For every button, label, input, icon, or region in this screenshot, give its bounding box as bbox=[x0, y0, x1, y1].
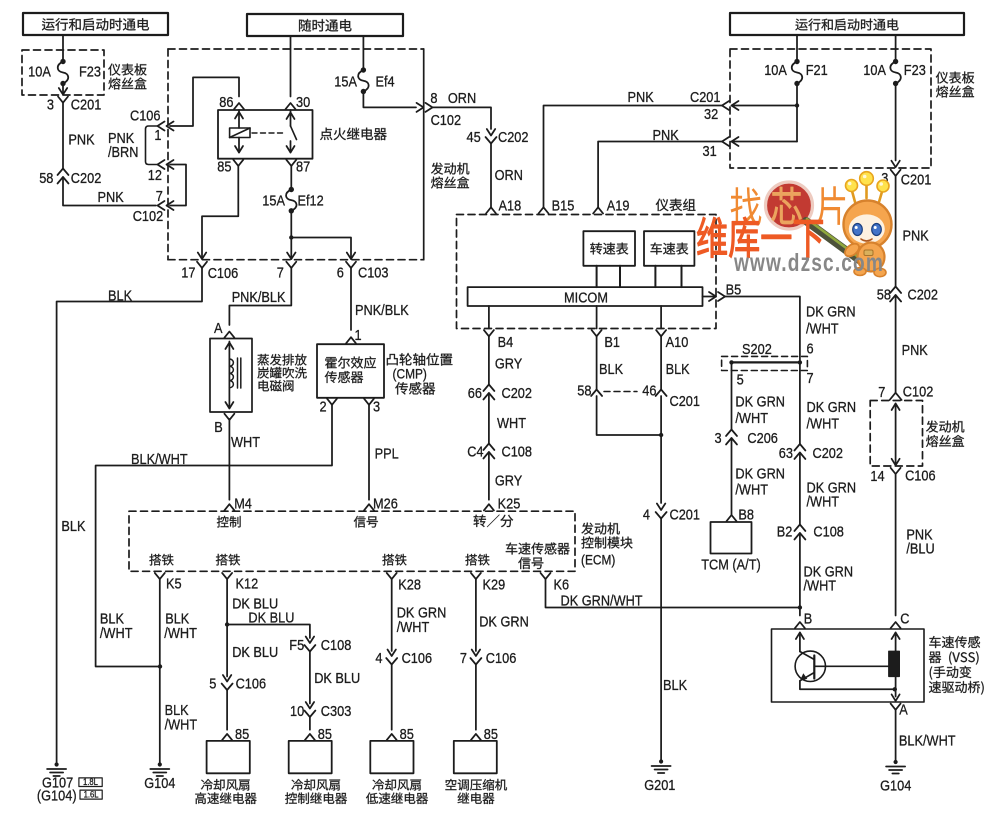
wire BLK cluster A10 to C201-46 bbox=[661, 336, 690, 390]
svg-text:PNK: PNK bbox=[653, 127, 679, 144]
svg-text:PNK: PNK bbox=[68, 132, 94, 149]
wire to high speed fan relay pin 85 bbox=[226, 690, 228, 730]
ECM connector K25 bbox=[484, 496, 520, 513]
connector C201 pin 58 (cluster) bbox=[577, 383, 602, 400]
connector C303 pin 10 bbox=[290, 702, 351, 720]
tachometer bbox=[583, 231, 635, 266]
svg-text:C106: C106 bbox=[486, 650, 517, 667]
engine control module ECM (dashed box) bbox=[129, 511, 633, 571]
wire to low speed fan relay pin 85 bbox=[391, 665, 393, 730]
svg-text:4: 4 bbox=[643, 507, 650, 524]
svg-text:GRY: GRY bbox=[495, 356, 522, 373]
svg-text:B: B bbox=[214, 419, 223, 436]
svg-text:C102: C102 bbox=[431, 112, 462, 129]
engine fuse box (dashed outline) bbox=[168, 49, 469, 260]
svg-text:BLK: BLK bbox=[108, 288, 132, 305]
svg-text:4: 4 bbox=[375, 650, 382, 667]
svg-text:M26: M26 bbox=[373, 496, 398, 513]
cluster connector B15 bbox=[539, 198, 575, 215]
svg-text:46: 46 bbox=[642, 383, 656, 400]
svg-text:F21: F21 bbox=[806, 62, 828, 79]
svg-text:/BLU: /BLU bbox=[906, 541, 934, 558]
svg-text:G104: G104 bbox=[144, 775, 175, 792]
svg-text:31: 31 bbox=[703, 143, 717, 160]
svg-text:/WHT: /WHT bbox=[807, 416, 840, 433]
svg-text:PNK: PNK bbox=[98, 189, 124, 206]
fuse F23 10A (left) bbox=[28, 59, 101, 86]
svg-text:(ECM): (ECM) bbox=[581, 552, 615, 568]
svg-text:G201: G201 bbox=[644, 777, 675, 794]
wire PNK/BLU C106-14 to VSS pin C bbox=[896, 474, 935, 616]
svg-text:10: 10 bbox=[290, 703, 304, 720]
svg-text:DK GRN: DK GRN bbox=[807, 399, 857, 416]
connector C201 pin 32 (exit left) bbox=[690, 89, 739, 123]
connector C202 pin 66 bbox=[468, 385, 532, 403]
svg-text:(CMP): (CMP) bbox=[393, 366, 427, 382]
svg-text:DK GRN: DK GRN bbox=[735, 394, 785, 411]
svg-text:C106: C106 bbox=[905, 468, 936, 485]
cooling fan low speed relay bbox=[366, 741, 428, 804]
svg-text:6: 6 bbox=[337, 265, 344, 282]
CMP sensor pin 3 bbox=[364, 399, 380, 416]
svg-text:7: 7 bbox=[277, 265, 284, 282]
svg-text:C303: C303 bbox=[321, 703, 352, 720]
wire PNK C202-58 to C102 pin 7 bbox=[63, 177, 156, 206]
svg-text:C201: C201 bbox=[690, 89, 721, 106]
svg-text:87: 87 bbox=[296, 159, 310, 176]
power feed box: hot at all times bbox=[247, 14, 403, 36]
VSS sensing element bbox=[814, 633, 899, 701]
wire GRY cluster B4 to C202-66 bbox=[489, 336, 522, 385]
wire C106-1 to ignition relay pin 86 bbox=[170, 77, 239, 126]
svg-text:GRY: GRY bbox=[495, 473, 522, 490]
svg-text:10A: 10A bbox=[28, 64, 51, 81]
wire ORN C202-45 to cluster A18 bbox=[491, 144, 523, 208]
svg-text:15A: 15A bbox=[262, 193, 285, 210]
relay pin 86 bbox=[219, 94, 244, 111]
svg-text:7: 7 bbox=[460, 650, 467, 667]
svg-text:63: 63 bbox=[779, 445, 793, 462]
svg-text:C102: C102 bbox=[133, 208, 164, 225]
svg-text:Ef4: Ef4 bbox=[376, 74, 395, 91]
svg-text:/WHT: /WHT bbox=[100, 625, 133, 642]
svg-text:(G104): (G104) bbox=[37, 788, 77, 805]
svg-text:C106: C106 bbox=[402, 650, 433, 667]
ground G104 (left) bbox=[144, 762, 175, 792]
VSS transistor bbox=[795, 633, 897, 692]
svg-text:C103: C103 bbox=[358, 265, 389, 282]
svg-text:C202: C202 bbox=[908, 287, 939, 304]
cluster connector B5 (exit right) bbox=[709, 282, 741, 302]
connector C201 pin 46 (cluster) bbox=[642, 383, 700, 411]
svg-text:DK GRN: DK GRN bbox=[735, 466, 785, 483]
connector C202 pin 63 bbox=[779, 444, 843, 462]
wire PNK/BLK pin7 to EVAP solenoid pin A bbox=[229, 268, 291, 325]
wire F21 to C201 pins 32 and 31 bbox=[732, 84, 800, 142]
wire F23 to connector C201 pin 3 (right) bbox=[891, 84, 899, 168]
connector C106 pin 5 bbox=[209, 675, 266, 693]
speedometer to MICOM wires bbox=[655, 266, 681, 287]
cluster connector A19 bbox=[593, 198, 629, 215]
svg-text:PNK: PNK bbox=[903, 228, 929, 245]
svg-text:66: 66 bbox=[468, 385, 482, 402]
cooling fan high speed relay bbox=[195, 741, 256, 804]
svg-text:85: 85 bbox=[217, 159, 231, 176]
svg-text:C201: C201 bbox=[670, 507, 701, 524]
svg-text:MICOM: MICOM bbox=[564, 290, 608, 307]
svg-text:BLK/WHT: BLK/WHT bbox=[131, 451, 188, 468]
ECM connector K28 bbox=[387, 573, 421, 594]
svg-text:C201: C201 bbox=[71, 97, 102, 114]
svg-text:ORN: ORN bbox=[448, 90, 476, 107]
CMP sensor pin 2 bbox=[320, 399, 338, 416]
svg-text:K25: K25 bbox=[498, 496, 521, 513]
connector C106 pin 1 bbox=[130, 108, 174, 145]
svg-text:C202: C202 bbox=[498, 129, 529, 146]
fuse F23 10A (right) bbox=[863, 59, 926, 86]
connector 85 of fan control relay bbox=[305, 726, 332, 743]
svg-text:K12: K12 bbox=[236, 576, 259, 593]
tachometer to MICOM wires bbox=[597, 266, 620, 287]
svg-text:DK BLU: DK BLU bbox=[248, 610, 294, 627]
connector C102 pin 7 (engine fuse box right) bbox=[878, 384, 933, 402]
svg-text:3: 3 bbox=[715, 430, 722, 447]
connector C106 pin 12 bbox=[148, 160, 174, 184]
TCM automatic transmission module bbox=[701, 522, 761, 574]
wire PNK C202-58 to C102-7 (right) bbox=[896, 295, 928, 393]
ECM connector K5 bbox=[155, 573, 182, 593]
svg-text:/WHT: /WHT bbox=[397, 619, 430, 636]
EVAP canister purge solenoid pin A bbox=[214, 320, 234, 338]
connector C108 pin B2 bbox=[777, 524, 844, 541]
splice S202 pin labels bbox=[737, 370, 814, 389]
svg-text:B4: B4 bbox=[498, 334, 514, 351]
svg-text:C106: C106 bbox=[130, 108, 161, 125]
wire DK BLU F5 to C303 bbox=[310, 652, 360, 704]
wire BLK C106-17 down-left to ground G107 bbox=[57, 268, 202, 765]
svg-text:12: 12 bbox=[148, 167, 162, 184]
speedometer bbox=[644, 231, 694, 266]
svg-text:7: 7 bbox=[807, 370, 814, 387]
engine fuse box (right, dashed) bbox=[870, 401, 964, 467]
ECM connector M4 bbox=[224, 496, 252, 513]
wire through engine fuse box with arrows bbox=[892, 404, 900, 466]
wire relay 87 to fuse Ef12 bbox=[290, 166, 292, 190]
instrument panel fuse box (left, dashed) bbox=[22, 50, 147, 95]
svg-text:5: 5 bbox=[209, 676, 216, 693]
wire DK GRN/WHT B5 to splice S202 bbox=[725, 297, 856, 363]
svg-text:BLK/WHT: BLK/WHT bbox=[899, 733, 956, 750]
ignition relay (dianhuo jidianqi) bbox=[218, 110, 387, 159]
svg-text:DK GRN: DK GRN bbox=[806, 304, 856, 321]
connector pin 7 (PNK/BLK to solenoid) bbox=[277, 262, 297, 282]
relay pin 30 bbox=[286, 94, 311, 111]
svg-text:C106: C106 bbox=[208, 265, 239, 282]
svg-text:1.6L: 1.6L bbox=[84, 790, 99, 800]
connector C106 pin 17 bbox=[181, 262, 238, 282]
EVAP solenoid pin B bbox=[214, 414, 234, 436]
connector 85 of high speed fan relay bbox=[222, 726, 249, 743]
wire PNK/BLK C103-6 to CMP sensor pin 1 bbox=[351, 268, 409, 330]
svg-text:58: 58 bbox=[577, 383, 591, 400]
svg-text:/BRN: /BRN bbox=[108, 144, 139, 161]
connector C106 pin 7 (compressor relay) bbox=[460, 650, 516, 668]
svg-text:F23: F23 bbox=[904, 62, 926, 79]
svg-text:C206: C206 bbox=[747, 430, 778, 447]
wire DK GRN ECM K29 bbox=[476, 579, 529, 651]
wire Ef12 to connectors 7 and 6 with junction bbox=[287, 211, 355, 259]
svg-text:C201: C201 bbox=[670, 393, 701, 410]
ECM connector K6 bbox=[541, 573, 570, 594]
VSS pin A bbox=[891, 702, 908, 719]
connector C103 pin 6 bbox=[337, 262, 389, 282]
wire inside engine fuse box C102-7 to C106-12 bbox=[170, 165, 186, 206]
svg-text:WHT: WHT bbox=[231, 434, 260, 451]
A/C compressor relay bbox=[445, 741, 506, 804]
svg-text:DK BLU: DK BLU bbox=[232, 644, 278, 661]
svg-text:DK GRN: DK GRN bbox=[479, 614, 529, 631]
svg-text:B15: B15 bbox=[552, 198, 575, 215]
connector C201 58-46 dashed tie bbox=[604, 391, 637, 393]
svg-text:M4: M4 bbox=[234, 496, 252, 513]
power feed box: hot in RUN and START (right) bbox=[730, 13, 964, 35]
connector C108 pin F5 bbox=[289, 637, 351, 655]
connector C206 pin 3 bbox=[715, 430, 778, 448]
wire right power box to fuse F23 bbox=[895, 35, 897, 62]
wire GRY C108-C4 to ECM K25 bbox=[489, 452, 522, 500]
cooling fan control relay bbox=[285, 741, 347, 804]
svg-text:PNK: PNK bbox=[902, 342, 928, 359]
wire DK GRN/WHT ECM K28 bbox=[392, 579, 447, 651]
TCM connector B8 bbox=[727, 507, 755, 524]
ground G104 (right) bbox=[880, 760, 911, 795]
svg-text:15A: 15A bbox=[334, 74, 357, 91]
wire PNK C201-3 to C202-58 bbox=[63, 103, 95, 169]
wire BLK C201-4 to ground G201 bbox=[661, 519, 687, 762]
svg-text:www.dzsc.com: www.dzsc.com bbox=[733, 249, 884, 277]
svg-text:K28: K28 bbox=[398, 577, 421, 594]
svg-text:TCM (A/T): TCM (A/T) bbox=[701, 557, 761, 574]
wire PNK fuse F21 to cluster A19 bbox=[598, 127, 722, 208]
connector C102 pin 7 (into engine fuse box) bbox=[133, 188, 174, 225]
cluster connector A18 bbox=[486, 198, 521, 215]
connector C106 pin 4 bbox=[375, 650, 432, 668]
wire DK GRN/WHT C202-63 to C108-B2 bbox=[800, 453, 856, 525]
svg-text:86: 86 bbox=[219, 94, 233, 111]
ECM connector K12 bbox=[222, 573, 258, 593]
svg-text:A18: A18 bbox=[499, 198, 522, 215]
wire fuse F23 to connector C201 pin 3 bbox=[59, 84, 67, 95]
svg-text:58: 58 bbox=[877, 287, 891, 304]
svg-text:1: 1 bbox=[355, 327, 362, 344]
fuse F21 10A bbox=[764, 59, 828, 86]
svg-text:K29: K29 bbox=[483, 577, 506, 594]
svg-text:17: 17 bbox=[181, 265, 195, 282]
MICOM output legs bbox=[489, 306, 661, 329]
svg-text:/WHT: /WHT bbox=[735, 410, 768, 427]
wire PNK C201-3 to C202-58 (right) bbox=[896, 176, 929, 287]
svg-text:5: 5 bbox=[737, 372, 744, 389]
wire BLK B1 join to A10 run bbox=[597, 396, 664, 437]
svg-text:BLK: BLK bbox=[61, 518, 85, 535]
svg-text:A10: A10 bbox=[666, 334, 689, 351]
vehicle speed sensor VSS box bbox=[772, 629, 984, 702]
svg-text:WHT: WHT bbox=[497, 415, 526, 432]
svg-text:F23: F23 bbox=[79, 64, 101, 81]
wire DK GRN/WHT ECM K6 to VSS junction bbox=[546, 579, 803, 610]
svg-text:8: 8 bbox=[430, 90, 437, 107]
wire BLK/WHT CMP-2 to ground run bbox=[96, 404, 332, 668]
connector C108 pin C4 bbox=[467, 444, 532, 461]
ground G107 bbox=[37, 762, 102, 804]
connector C102 pin 8 (exit right, ORN) bbox=[417, 90, 477, 129]
wire PPL CMP-3 to ECM M26 bbox=[369, 404, 399, 500]
wire DK BLU branch to F5 bbox=[227, 610, 310, 639]
svg-text:10A: 10A bbox=[764, 62, 787, 79]
svg-text:6: 6 bbox=[807, 341, 814, 358]
svg-text:C202: C202 bbox=[813, 445, 844, 462]
wire hot-at-all-times to relay pin 30 bbox=[290, 36, 292, 97]
wire PNK fuse F21 to cluster B15 bbox=[544, 89, 723, 208]
svg-text:PNK/BLK: PNK/BLK bbox=[355, 302, 409, 319]
connector 85 of low speed fan relay bbox=[387, 726, 414, 743]
connector C201 pin 3 (left) bbox=[47, 97, 101, 114]
svg-text:C102: C102 bbox=[903, 384, 934, 401]
svg-text:58: 58 bbox=[39, 170, 53, 187]
MICOM microcomputer bar bbox=[468, 287, 703, 306]
ECM connector M26 bbox=[364, 496, 398, 513]
connector C201 pin 4 bbox=[643, 504, 700, 524]
power feed box: hot in RUN and START (left) bbox=[23, 13, 168, 35]
EVAP canister purge solenoid (zhengfa paifang tanguan chuixi diancifa) bbox=[210, 339, 307, 413]
svg-text:K5: K5 bbox=[166, 576, 182, 593]
wire DK GRN/WHT C108-B2 to VSS pin B bbox=[800, 533, 853, 616]
connector C202 pin 58 (right) bbox=[877, 287, 938, 304]
svg-text:30: 30 bbox=[296, 94, 310, 111]
svg-text:PNK: PNK bbox=[628, 89, 654, 106]
splice S202 bbox=[722, 341, 808, 371]
svg-text:14: 14 bbox=[870, 468, 884, 485]
svg-text:BLK: BLK bbox=[666, 361, 690, 378]
cluster connector B4 bbox=[484, 330, 513, 351]
VSS pin C bbox=[891, 611, 910, 629]
wire right power box to fuse F21 bbox=[796, 35, 798, 62]
svg-text:/WHT: /WHT bbox=[735, 482, 768, 499]
svg-text:7: 7 bbox=[156, 188, 163, 205]
svg-text:32: 32 bbox=[704, 106, 718, 123]
connector C202 pin 58 (left) bbox=[39, 169, 101, 188]
svg-text:B2: B2 bbox=[777, 524, 793, 541]
svg-text:/WHT: /WHT bbox=[165, 717, 198, 734]
wire BLK/WHT ECM K5 to ground G104 bbox=[100, 579, 197, 765]
wire ORN C102-8 to C202-45 bbox=[433, 107, 492, 129]
connector C201 pin 3 (right) bbox=[881, 170, 931, 189]
svg-text:B8: B8 bbox=[738, 507, 754, 524]
svg-text:BLK: BLK bbox=[599, 361, 623, 378]
instrument panel fuse box (right, dashed) bbox=[730, 49, 974, 168]
svg-text:C202: C202 bbox=[71, 170, 102, 187]
ECM connector K29 bbox=[471, 573, 505, 594]
svg-text:C4: C4 bbox=[467, 444, 483, 461]
svg-text:G104: G104 bbox=[880, 778, 911, 795]
instrument cluster (dashed box) bbox=[457, 199, 717, 329]
svg-text:C202: C202 bbox=[502, 385, 533, 402]
svg-text:3: 3 bbox=[373, 399, 380, 416]
fuse Ef12 15A bbox=[262, 187, 323, 214]
svg-text:C106: C106 bbox=[236, 676, 267, 693]
relay pin 85 bbox=[217, 159, 243, 176]
svg-text:A19: A19 bbox=[607, 198, 630, 215]
connector C106 pin 14 bbox=[870, 468, 935, 486]
connector C201 pin 31 (exit left) bbox=[703, 137, 739, 160]
connector C202 pin 45 bbox=[467, 129, 529, 146]
svg-text:K6: K6 bbox=[554, 577, 570, 594]
wire to control fan relay pin 85 bbox=[309, 717, 311, 730]
svg-text:/WHT: /WHT bbox=[806, 321, 839, 338]
wire WHT solenoid B to ECM M4 bbox=[229, 419, 260, 500]
wire BLK/WHT VSS-A to ground G104 bbox=[896, 710, 956, 763]
CMP hall-effect sensor pin 1 bbox=[346, 327, 362, 344]
svg-text:B1: B1 bbox=[604, 334, 620, 351]
svg-text:C108: C108 bbox=[502, 444, 533, 461]
relay switch contact bbox=[287, 110, 297, 153]
svg-text:S202: S202 bbox=[742, 341, 772, 358]
svg-text:1: 1 bbox=[154, 127, 161, 144]
svg-text:/WHT: /WHT bbox=[807, 494, 840, 511]
ground G201 bbox=[644, 759, 675, 794]
wire relay 85 to connector C106 pin 17 bbox=[198, 166, 239, 259]
wire WHT C202-66 to C108-C4 bbox=[489, 393, 526, 444]
svg-text:DK BLU: DK BLU bbox=[314, 670, 360, 687]
svg-text:PPL: PPL bbox=[375, 446, 399, 463]
relay coil branch with arrows bbox=[230, 110, 250, 153]
wire DK GRN/WHT S202-7 to C202-63 bbox=[800, 362, 856, 444]
wire DK BLU ECM K12 with junction bbox=[225, 579, 278, 677]
svg-text:A: A bbox=[899, 702, 908, 719]
cluster connector A10 bbox=[656, 330, 688, 351]
svg-text:45: 45 bbox=[467, 129, 481, 146]
wire BLK cluster B1 to C201-58 bbox=[597, 336, 624, 390]
fuse Ef4 15A bbox=[334, 67, 394, 94]
svg-text:DK GRN/WHT: DK GRN/WHT bbox=[561, 593, 643, 610]
svg-text:B: B bbox=[804, 611, 813, 628]
svg-text:7: 7 bbox=[878, 384, 885, 401]
svg-text:PNK/BLK: PNK/BLK bbox=[232, 289, 286, 306]
VSS pin B bbox=[795, 611, 812, 629]
svg-text:F5: F5 bbox=[289, 637, 304, 654]
svg-text:BLK: BLK bbox=[663, 677, 687, 694]
wire DK GRN/WHT C206-3 to TCM B8 bbox=[732, 438, 786, 515]
jumper bracket C106 pin 1 to pin 12 (PNK/BRN) bbox=[108, 126, 158, 165]
watermark logo (dzsc.com) bbox=[697, 172, 891, 277]
svg-text:Ef12: Ef12 bbox=[298, 193, 324, 210]
svg-text:C108: C108 bbox=[321, 637, 352, 654]
connector 85 of A/C compressor relay bbox=[471, 726, 498, 743]
svg-text:C: C bbox=[900, 611, 909, 628]
svg-text:C108: C108 bbox=[813, 524, 844, 541]
wire MICOM to B5 exit bbox=[703, 296, 717, 298]
wire from left power box to fuse F23 bbox=[62, 35, 64, 62]
svg-text:3: 3 bbox=[47, 97, 54, 114]
wire hot-at-all-times to fuse Ef4 bbox=[362, 36, 364, 70]
wire Ef4 to connector C102 pin 8 bbox=[363, 92, 416, 108]
CMP hall-effect sensor (huoer xiaoying chuanganqi) bbox=[317, 344, 452, 398]
svg-text:A: A bbox=[214, 320, 223, 337]
svg-text:1.8L: 1.8L bbox=[83, 777, 98, 787]
cluster connector B1 bbox=[592, 330, 620, 351]
svg-text:/WHT: /WHT bbox=[804, 578, 837, 595]
wire to A/C compressor relay pin 85 bbox=[475, 665, 477, 730]
